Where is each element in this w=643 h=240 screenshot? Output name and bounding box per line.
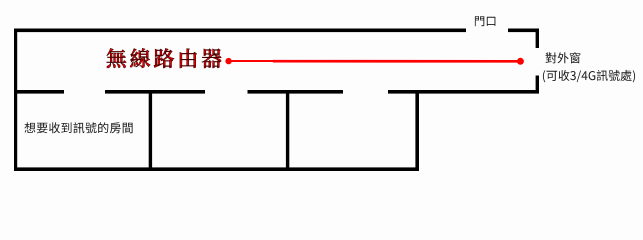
wall: room divider 2 <box>286 90 289 171</box>
wall: hallway top, right segment (right of 門口 door gap) <box>508 29 539 33</box>
red dot: router end <box>225 58 231 64</box>
label 無線路由器 (wireless router, red title) <box>107 48 222 68</box>
label (可收3/4G訊號處) (spot receiving 3/4G signal) <box>543 70 635 83</box>
label 門口 (entrance) <box>475 16 496 26</box>
wall: left outer <box>14 29 17 172</box>
red signal line, thicker right part <box>273 60 520 63</box>
wall: right outer, upper piece above window gap <box>536 29 539 49</box>
red dot: window end <box>517 58 524 65</box>
wall: room divider 3 / right wall of rooms <box>415 90 419 171</box>
wall: room divider 1 <box>149 90 152 171</box>
label 想要收到訊號的房間 (room that wants signal) <box>24 122 132 133</box>
wall: bottom outer <box>14 167 419 171</box>
wall: hallway top, left segment <box>14 29 466 33</box>
wall: middle horizontal, segment 3 <box>248 90 344 94</box>
wall: middle horizontal, segment 4 <box>388 90 539 94</box>
wall: middle horizontal, segment 2 <box>105 90 205 94</box>
wall: middle horizontal, segment 1 <box>14 90 64 94</box>
red signal line from router to window <box>229 60 274 62</box>
label 對外窗 (outward-facing window) <box>546 52 581 63</box>
wall: right outer, lower piece below window gap <box>536 76 539 94</box>
